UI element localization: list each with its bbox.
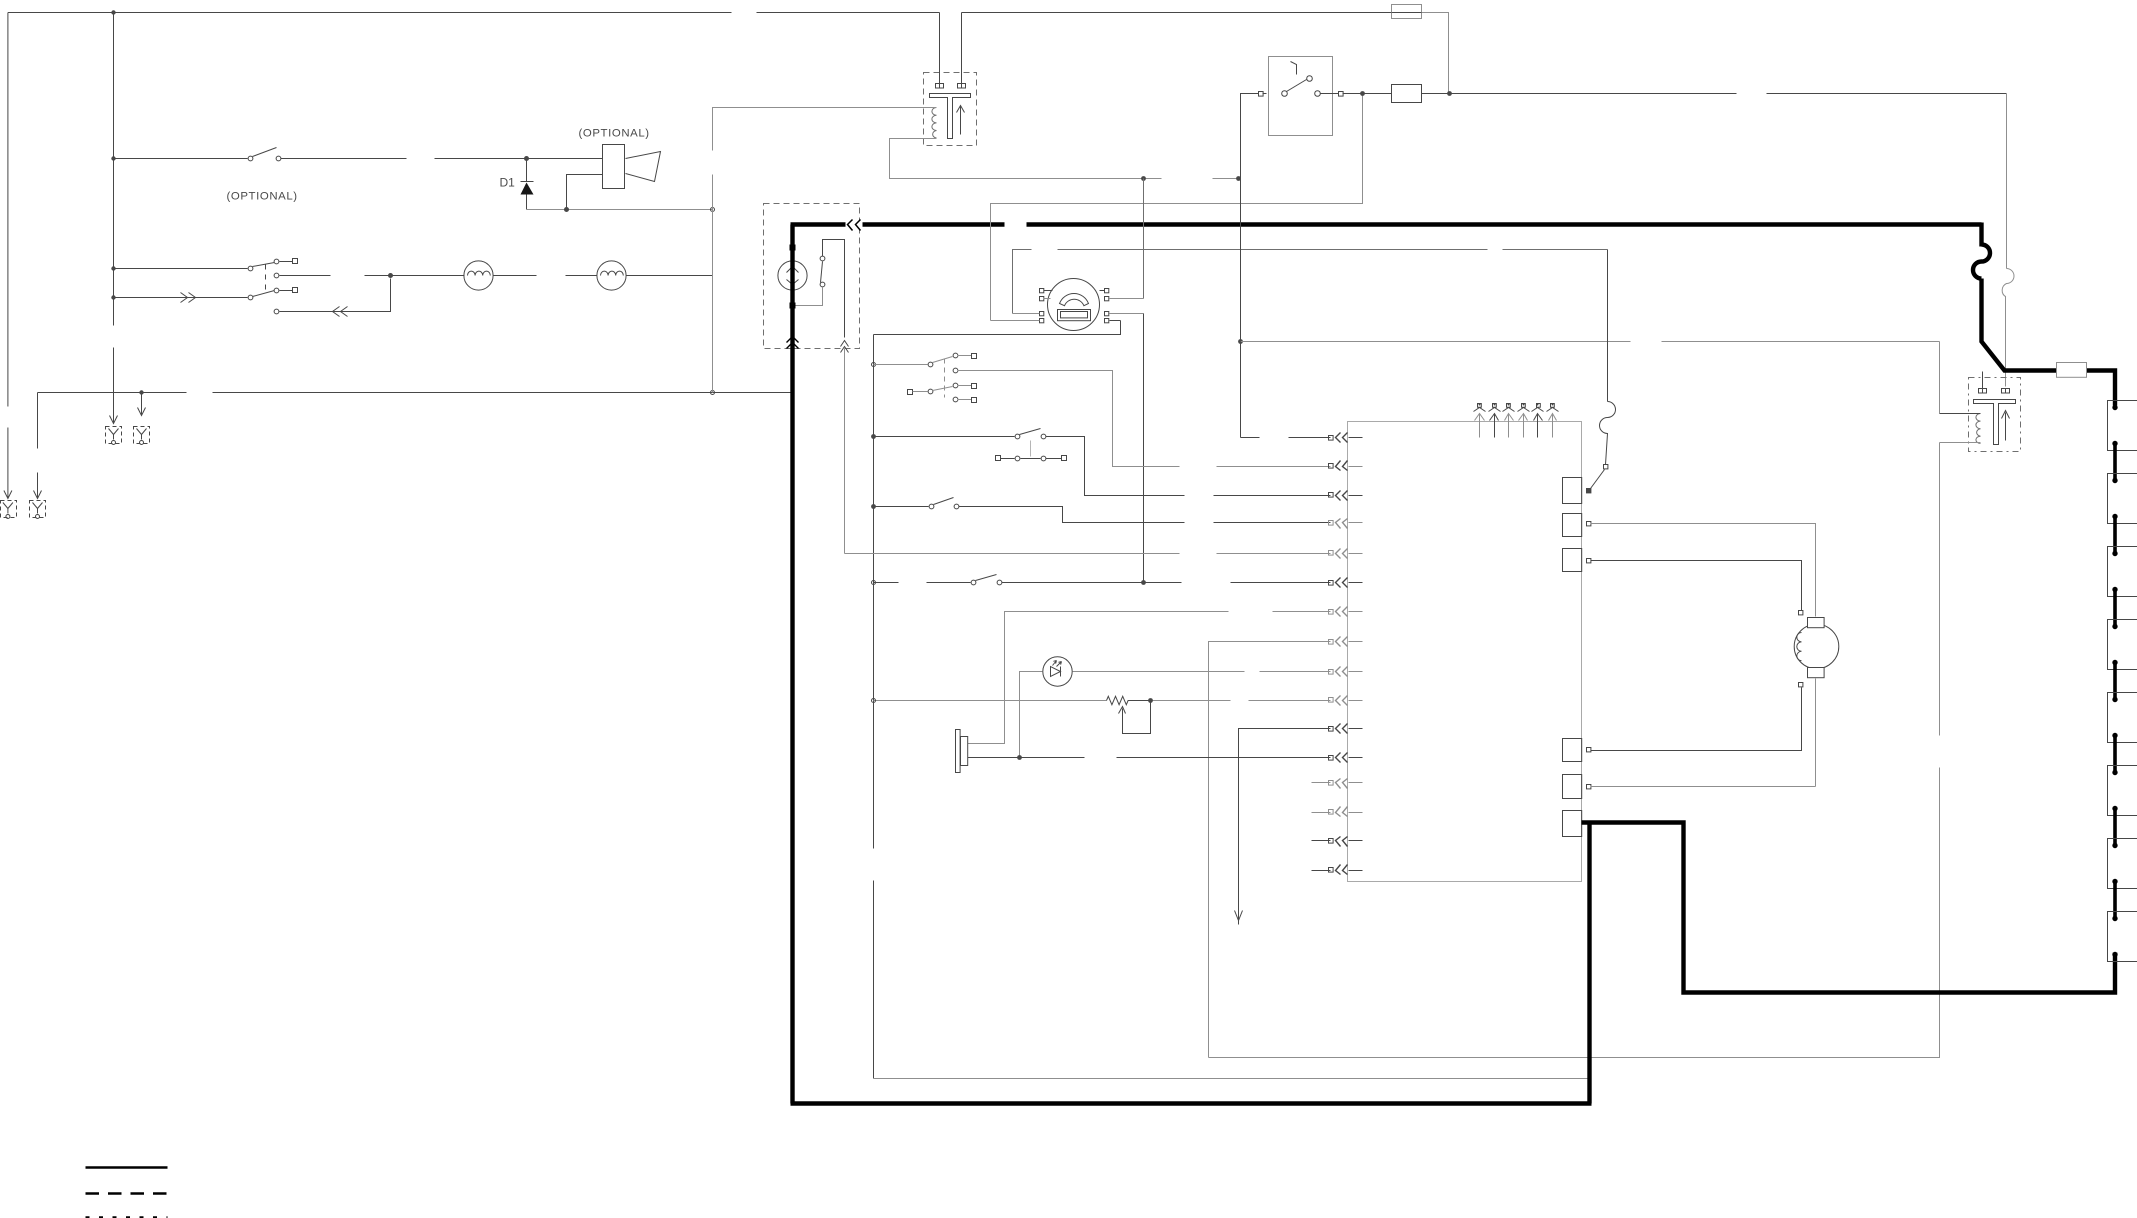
hour meter circle bbox=[1048, 279, 1100, 331]
battery link 3-4 bbox=[2113, 590, 2117, 627]
lamp 1 (headlight) bbox=[464, 261, 493, 290]
node row E meter join bbox=[1141, 580, 1146, 585]
coil1 terminal lugs bbox=[936, 84, 944, 89]
connector (harness plug) x=141 bbox=[134, 427, 150, 444]
controller tab T5 bbox=[1563, 775, 1582, 799]
wire+switch: light switch row2 bbox=[114, 268, 248, 270]
connector arrow (thick) at key box bottom bbox=[787, 337, 799, 349]
wire: meter R4 ground loop to left column bbox=[874, 321, 1121, 335]
wire: top supply bus y=12 bbox=[8, 12, 1392, 14]
controller left pin r16 bbox=[1312, 865, 1363, 875]
junction node horn return bbox=[564, 207, 569, 212]
controller tab T6 bbox=[1563, 811, 1582, 837]
battery cell 3 bbox=[2108, 547, 2137, 597]
controller tab T2 bbox=[1563, 514, 1582, 537]
motor top terminal bbox=[1799, 611, 1803, 615]
wire: vertical bus x=113 bbox=[113, 13, 115, 416]
node fuse junction bbox=[1447, 91, 1452, 96]
controller tab T1 bbox=[1563, 478, 1582, 504]
relay pin right bbox=[1321, 93, 1339, 95]
wire: aux line down to controller row5 bbox=[844, 349, 846, 554]
battery cell 8 bbox=[2108, 912, 2137, 962]
node x=113 row2 bbox=[111, 266, 115, 270]
controller left pin r6 bbox=[1329, 578, 1363, 588]
node at x=113 on top bus bbox=[111, 10, 115, 14]
wire: meter R2 sense up to coil line bbox=[1143, 179, 1145, 299]
diode D1 bbox=[526, 161, 528, 182]
thick cable: top horizontal run bbox=[791, 222, 1982, 226]
key switch circle bbox=[778, 261, 807, 290]
coil1 primary winding loops bbox=[932, 108, 937, 139]
coil1 arrow up bbox=[957, 106, 965, 135]
node at x=712 on return bbox=[711, 208, 715, 212]
connector (harness plug) x=36.9 bbox=[30, 501, 46, 518]
node bus x=712 bbox=[711, 391, 715, 395]
node coil1 output x=1238.5 bbox=[1236, 176, 1241, 181]
node x=1239.5 y=340.6 bbox=[1238, 339, 1243, 344]
controller left pin r11 bbox=[1329, 724, 1363, 734]
node row C bbox=[871, 434, 876, 439]
legend dashed line bbox=[86, 1192, 168, 1195]
battery cell 2 bbox=[2108, 474, 2137, 524]
thick cable: right feed with strain curves bbox=[1982, 223, 2116, 406]
controller left pin r14 bbox=[1312, 807, 1363, 817]
legend solid line bbox=[86, 1166, 168, 1169]
thick cable: T6 to battery negative bbox=[791, 821, 2116, 1104]
accessory column vertical x=873.2 bbox=[873, 335, 875, 1079]
battery cell 1 bbox=[2108, 401, 2137, 451]
controller tab T4 bbox=[1563, 739, 1582, 762]
wire: meter R3 down to switch row E bbox=[1143, 314, 1145, 583]
LED indicator circle bbox=[1043, 657, 1072, 686]
connector (harness plug) x=113 bbox=[106, 427, 122, 444]
controller left pin r7 bbox=[1329, 607, 1363, 617]
node speaker line bbox=[1017, 755, 1022, 760]
hour meter inner harness wire bbox=[1013, 250, 1608, 314]
wire: fuse1 output bbox=[1422, 13, 1449, 92]
node on thick cable above key circle bbox=[790, 245, 796, 251]
fuse 3 (main) bbox=[2057, 363, 2087, 378]
connector arrow x=113 bbox=[110, 408, 118, 424]
wire: r11 battery sense w/ down arrow bbox=[1239, 729, 1331, 918]
wire: LED row r9 bbox=[1020, 672, 1331, 758]
meter terminals left bbox=[1040, 289, 1044, 293]
wire+switch: optional accessory switch row1 bbox=[114, 158, 248, 160]
relay switch contacts bbox=[1282, 91, 1288, 97]
wire: lamps line y=275.4 bbox=[280, 275, 713, 277]
battery cell 5 bbox=[2108, 693, 2137, 743]
node lamp line bbox=[388, 273, 393, 278]
horn (OPTIONAL) bbox=[603, 145, 625, 189]
node row r10 left bbox=[872, 699, 876, 703]
wire+switch: dimmer switch row3 bbox=[114, 297, 248, 299]
key switch dashed enclosure bbox=[764, 204, 860, 349]
battery cell 6 bbox=[2108, 766, 2137, 816]
controller left pin r5 bbox=[1329, 549, 1363, 559]
switch row B bbox=[908, 390, 913, 395]
hour meter outer harness box bbox=[991, 94, 1363, 321]
controller left pin r8 bbox=[1329, 637, 1363, 647]
gang link switch A/B bbox=[944, 359, 946, 398]
wire: controller r7 gray to speaker+LED riser bbox=[968, 612, 1331, 744]
wire: bottom gray1 run to coil2 bbox=[1209, 342, 1940, 1058]
cable arrows << at key box exit bbox=[846, 221, 863, 229]
wire: controller r8 gray ground loop bbox=[1209, 642, 1331, 1058]
wire: y=340.6 run to right coil2 bbox=[1241, 341, 1940, 343]
controller left pin r9 bbox=[1329, 667, 1363, 677]
svg-text:(OPTIONAL): (OPTIONAL) bbox=[579, 128, 650, 140]
battery cable (thick) from key switch bbox=[791, 225, 1982, 1104]
wire: bottom gray2 ground run bbox=[874, 1078, 1588, 1080]
node x=113 row3 bbox=[111, 295, 115, 299]
wire: y93 to coil2 secondary bbox=[2006, 94, 2007, 387]
svg-text:D1: D1 bbox=[500, 176, 516, 190]
wire: coil2 primary out bbox=[1940, 442, 1981, 444]
battery cell 7 bbox=[2108, 839, 2137, 889]
wire rowA to controller r2 bbox=[958, 371, 1331, 467]
svg-text:(OPTIONAL): (OPTIONAL) bbox=[227, 191, 298, 203]
wire: S-curve drop to T1 bbox=[1607, 250, 1609, 402]
motor bottom terminal bbox=[1799, 683, 1803, 687]
wire: ground bus y=392.4 bbox=[38, 392, 793, 394]
ignition coil 2 dashed box bbox=[1969, 378, 2021, 452]
wire: left border vertical x=7.4 bbox=[7, 13, 9, 490]
battery link 7-8 bbox=[2113, 882, 2117, 919]
coil2 winding loops bbox=[1976, 414, 1981, 444]
ignition coil 1 dashed box bbox=[924, 73, 977, 146]
coil1 terminal leads from top bus bbox=[940, 13, 962, 84]
connector arrow left border bbox=[4, 490, 12, 499]
connector (harness plug) at left border bbox=[1, 501, 17, 518]
battery link 1-2 bbox=[2113, 444, 2117, 481]
coil2 terminal T1 lead bbox=[1982, 372, 1984, 389]
gang link dashes rows2-3 bbox=[265, 265, 267, 294]
resistor (rheostat) zigzag bbox=[1107, 696, 1149, 704]
controller left pin r12 bbox=[1329, 753, 1363, 763]
battery link 2-3 bbox=[2113, 517, 2117, 554]
node row A bbox=[872, 363, 876, 367]
interlock switch blade at T1 bbox=[1591, 470, 1605, 489]
wire: coil1 output y=137.8 bbox=[890, 139, 1239, 179]
node on thick cable below key circle bbox=[790, 303, 796, 309]
controller left pin r13 bbox=[1312, 779, 1363, 789]
node wiper/resistor junction bbox=[1148, 698, 1153, 703]
wire: D1/horn return line y=208.8 bbox=[527, 209, 713, 211]
fuse 2 bbox=[1392, 85, 1422, 103]
LED diode symbol bbox=[1051, 667, 1061, 677]
wire: T5 to motor loop (gray) bbox=[1591, 786, 1816, 788]
wire: coil2 primary in bbox=[1940, 413, 1981, 415]
battery link 6-7 bbox=[2113, 809, 2117, 846]
controller tab T3 bbox=[1563, 549, 1582, 572]
relay pin left bbox=[1263, 93, 1267, 95]
speaker / alarm buzzer bbox=[956, 730, 961, 773]
controller left pin r4 bbox=[1329, 519, 1363, 529]
hour meter display window bbox=[1058, 310, 1091, 321]
wire: coil1 feed from key area y=107.2 bbox=[713, 108, 937, 393]
thick cable: key switch vertical bbox=[790, 225, 794, 1104]
hourmeter/fuse jumper vertical x=1239.5 bbox=[1240, 94, 1242, 438]
controller left pin r2 bbox=[1329, 461, 1363, 471]
switch row A (PTO) bbox=[874, 364, 928, 366]
pushbutton actuator link bbox=[1030, 441, 1032, 457]
thick cable: bottom ground run bbox=[791, 1101, 1592, 1105]
connector arrow x=36.9 bbox=[34, 490, 42, 499]
electric motor bbox=[1794, 624, 1839, 669]
fuse 1 bbox=[1392, 5, 1422, 19]
controller left pin r10 bbox=[1329, 696, 1363, 706]
wire: bus drop x=141 bbox=[138, 393, 146, 416]
controller left pin r15 bbox=[1312, 837, 1363, 847]
coil2 T-bar bbox=[1974, 400, 2016, 445]
controller top connector arrows bbox=[1474, 404, 1559, 438]
node row D bbox=[871, 504, 876, 509]
horn lower lead bbox=[567, 175, 603, 210]
controller left pin r1 bbox=[1241, 433, 1363, 443]
lamp 2 (headlight) bbox=[597, 261, 626, 290]
pushbutton lower contacts bbox=[996, 456, 1001, 461]
wire: dimmer return y=310.8 with arrows bbox=[280, 279, 391, 312]
controller module box bbox=[1348, 422, 1582, 882]
connector arrow (thin) at key box bottom bbox=[841, 341, 849, 353]
hour meter needle arc bbox=[1060, 293, 1089, 305]
wire: resistor row r10 bbox=[874, 700, 1331, 702]
wire: T3 to motor armature bbox=[1591, 561, 1802, 611]
coil1 T-bar (high tension tower) bbox=[930, 94, 971, 139]
key switch aux loop to x=844 bbox=[823, 240, 845, 338]
node at D1 top bbox=[524, 156, 529, 161]
meter terminals right bbox=[1105, 289, 1109, 293]
ignition relay switch box bbox=[1269, 57, 1333, 136]
pushbutton switch row C bbox=[874, 436, 1015, 438]
wire: key aux to controller r5 bbox=[845, 553, 1331, 555]
node row E bbox=[872, 581, 876, 585]
node coil1 output x=1142.7 bbox=[1141, 176, 1146, 181]
rheostat wiper arrow bbox=[1119, 707, 1126, 724]
coil2 arrow up bbox=[2002, 411, 2010, 441]
wire: T2 to motor loop (gray) bbox=[1591, 524, 1816, 787]
wire: speaker- row r12 bbox=[968, 757, 1331, 759]
battery cell 4 bbox=[2108, 620, 2137, 670]
node y93 x1362 bbox=[1360, 91, 1365, 96]
wire: motor to T4 bbox=[1591, 688, 1802, 751]
node bus x=141 bbox=[139, 390, 143, 394]
switch row D bbox=[874, 506, 929, 508]
rheostat wiper loop bbox=[1123, 703, 1151, 734]
wire: bus drop x=36.9 bbox=[37, 393, 39, 490]
battery link 5-6 bbox=[2113, 736, 2117, 773]
thin wire-break S x=2005 bbox=[2002, 269, 2014, 297]
battery link 4-5 bbox=[2113, 663, 2117, 700]
switch row E (seat/brake) bbox=[874, 582, 971, 584]
node x=113 row1 bbox=[111, 156, 115, 160]
key switch contact branch bbox=[795, 288, 823, 306]
legend dotted line bbox=[86, 1216, 168, 1218]
coil2 terminal T2 bbox=[2002, 389, 2010, 394]
controller left pin r3 bbox=[1329, 491, 1363, 501]
thick cable S-curve bbox=[1973, 245, 1990, 279]
